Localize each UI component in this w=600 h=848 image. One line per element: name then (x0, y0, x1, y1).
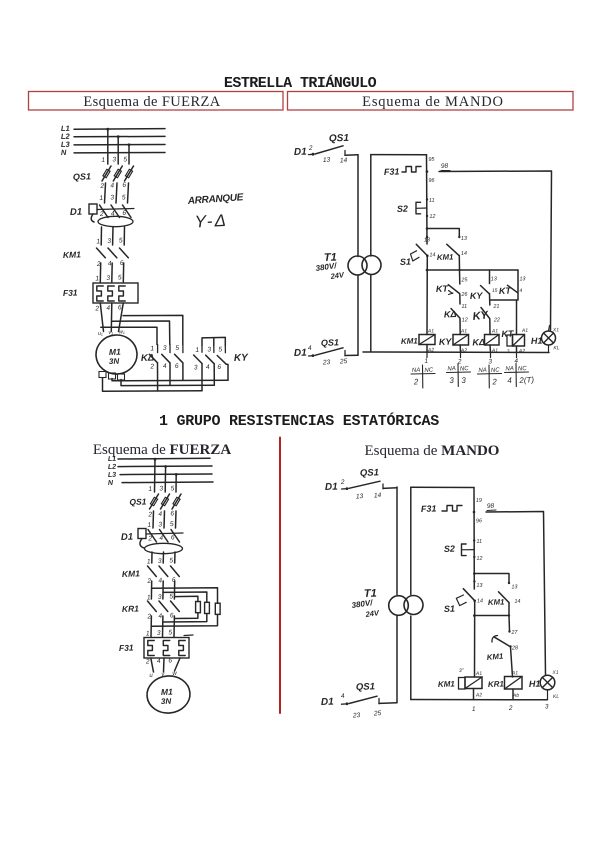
svg-text:2: 2 (413, 377, 419, 386)
svg-text:14: 14 (461, 251, 467, 257)
svg-text:19: 19 (476, 498, 482, 504)
svg-text:2: 2 (340, 479, 345, 486)
svg-text:5: 5 (119, 237, 123, 244)
svg-text:13: 13 (461, 236, 468, 242)
svg-text:1: 1 (147, 522, 151, 529)
svg-text:3N: 3N (161, 697, 172, 706)
svg-text:24V: 24V (364, 608, 380, 619)
svg-text:13: 13 (356, 493, 364, 500)
svg-text:KY: KY (470, 291, 484, 301)
svg-text:11: 11 (429, 198, 435, 204)
svg-text:3: 3 (110, 194, 114, 201)
svg-text:KY: KY (234, 352, 250, 364)
svg-text:KR1: KR1 (488, 679, 505, 689)
svg-text:13: 13 (491, 276, 498, 282)
svg-text:11: 11 (461, 304, 467, 310)
svg-text:4: 4 (106, 305, 110, 312)
svg-text:3N: 3N (109, 357, 120, 366)
svg-text:98: 98 (487, 503, 495, 510)
svg-text:D1: D1 (321, 697, 335, 708)
svg-text:1 GRUPO RESISTENCIAS ESTATÓRIC: 1 GRUPO RESISTENCIAS ESTATÓRICAS (159, 412, 439, 430)
svg-text:D1: D1 (70, 207, 83, 218)
svg-text:22: 22 (493, 317, 500, 323)
svg-text:1: 1 (424, 358, 428, 365)
svg-text:3: 3 (159, 485, 163, 492)
svg-text:28: 28 (511, 645, 519, 651)
svg-text:F31: F31 (63, 287, 78, 298)
svg-text:N: N (61, 148, 67, 157)
svg-text:5: 5 (171, 485, 175, 492)
svg-text:2: 2 (99, 183, 104, 190)
svg-text:23: 23 (352, 712, 361, 719)
svg-text:A1: A1 (521, 328, 529, 334)
svg-text:3: 3 (158, 521, 162, 528)
svg-text:3: 3 (449, 376, 454, 385)
svg-text:3: 3 (163, 345, 167, 352)
svg-text:26: 26 (460, 292, 468, 298)
svg-text:D1: D1 (325, 482, 339, 493)
svg-text:u: u (149, 673, 153, 679)
svg-text:2: 2 (94, 305, 99, 312)
svg-text:4: 4 (308, 345, 312, 352)
svg-text:24V: 24V (329, 270, 345, 281)
svg-text:Esquema de MANDO: Esquema de MANDO (365, 443, 500, 459)
svg-text:4: 4 (158, 613, 162, 620)
svg-text:F31: F31 (421, 503, 437, 514)
svg-text:13: 13 (519, 276, 526, 282)
svg-text:2: 2 (147, 535, 152, 542)
svg-text:M1: M1 (109, 347, 121, 357)
svg-text:QS1: QS1 (356, 681, 375, 693)
svg-text:14: 14 (374, 492, 382, 499)
svg-text:14: 14 (477, 598, 483, 604)
svg-text:25: 25 (460, 277, 468, 283)
svg-text:KT: KT (436, 284, 450, 294)
svg-text:14: 14 (514, 599, 520, 605)
svg-text:KΔ: KΔ (472, 337, 485, 347)
svg-text:96: 96 (428, 178, 435, 184)
svg-text:Esquema de MANDO: Esquema de MANDO (362, 94, 504, 110)
svg-text:KL: KL (553, 694, 560, 700)
svg-text:3: 3 (545, 703, 549, 710)
svg-text:NA: NA (505, 366, 514, 372)
svg-text:11: 11 (476, 539, 482, 545)
svg-text:KΔ: KΔ (444, 309, 457, 319)
svg-text:X1: X1 (552, 327, 560, 333)
svg-text:L3: L3 (108, 472, 117, 479)
svg-text:1: 1 (146, 630, 150, 637)
svg-text:25: 25 (339, 358, 348, 365)
svg-text:98: 98 (441, 163, 449, 170)
svg-text:2: 2 (99, 211, 104, 218)
svg-text:1: 1 (148, 486, 152, 493)
svg-text:KY: KY (439, 337, 453, 347)
svg-text:L1: L1 (108, 456, 117, 463)
svg-text:6: 6 (217, 364, 221, 371)
svg-text:A1: A1 (491, 328, 499, 334)
svg-text:D1: D1 (121, 532, 134, 543)
svg-text:KM1: KM1 (122, 568, 141, 579)
svg-text:4: 4 (110, 182, 114, 189)
svg-text:4: 4 (157, 658, 161, 665)
svg-text:1: 1 (195, 347, 199, 354)
svg-text:QS1: QS1 (73, 171, 91, 182)
svg-text:KM1: KM1 (486, 652, 503, 662)
svg-text:4: 4 (341, 693, 345, 700)
svg-text:1: 1 (96, 238, 100, 245)
svg-text:12: 12 (462, 317, 468, 323)
svg-text:380V/: 380V/ (351, 598, 374, 610)
svg-text:NA: NA (447, 366, 456, 372)
svg-text:23: 23 (322, 359, 331, 366)
svg-text:3: 3 (158, 594, 162, 601)
svg-text:6: 6 (175, 363, 179, 370)
svg-text:2: 2 (508, 705, 513, 712)
svg-text:QS1: QS1 (129, 496, 147, 507)
svg-text:13: 13 (476, 583, 483, 589)
svg-text:3: 3 (157, 630, 161, 637)
svg-text:5: 5 (122, 194, 126, 201)
svg-text:96: 96 (476, 518, 483, 524)
svg-text:1: 1 (150, 345, 154, 352)
svg-text:5: 5 (168, 629, 172, 636)
svg-text:Esquema de FUERZA: Esquema de FUERZA (83, 94, 220, 110)
svg-text:13: 13 (511, 584, 518, 590)
svg-text:2: 2 (491, 377, 497, 386)
svg-text:3: 3 (106, 275, 110, 282)
svg-text:Y-Δ: Y-Δ (194, 211, 228, 232)
svg-text:5: 5 (169, 593, 173, 600)
svg-text:3": 3" (459, 668, 464, 674)
svg-text:4: 4 (158, 577, 162, 584)
svg-text:13: 13 (323, 157, 331, 164)
svg-text:2: 2 (308, 145, 313, 152)
svg-text:3: 3 (112, 156, 116, 163)
svg-text:6: 6 (170, 612, 174, 619)
svg-text:1: 1 (472, 706, 476, 713)
svg-text:4: 4 (159, 535, 163, 542)
svg-text:S1: S1 (400, 257, 411, 267)
svg-text:KR1: KR1 (122, 603, 140, 614)
svg-text:1: 1 (147, 558, 151, 565)
svg-text:6: 6 (170, 510, 174, 517)
svg-text:A2: A2 (518, 348, 526, 354)
svg-text:5: 5 (169, 557, 173, 564)
svg-text:L2: L2 (108, 464, 117, 471)
svg-text:2: 2 (149, 363, 154, 370)
svg-text:1: 1 (99, 195, 103, 202)
svg-text:4: 4 (158, 511, 162, 518)
svg-text:12: 12 (476, 556, 482, 562)
svg-text:D1: D1 (294, 348, 308, 359)
svg-text:3: 3 (207, 346, 211, 353)
svg-text:4: 4 (206, 364, 210, 371)
svg-text:1: 1 (101, 157, 105, 164)
svg-text:N: N (108, 480, 114, 487)
svg-text:3: 3 (107, 238, 111, 245)
svg-text:6: 6 (122, 210, 126, 217)
svg-text:5: 5 (170, 521, 174, 528)
svg-text:A1: A1 (475, 671, 483, 677)
svg-text:21: 21 (492, 304, 499, 310)
svg-text:25: 25 (373, 710, 382, 717)
svg-text:3: 3 (488, 358, 492, 365)
svg-text:X1: X1 (551, 670, 559, 676)
svg-text:A2: A2 (475, 692, 483, 698)
svg-text:5: 5 (175, 345, 179, 352)
svg-text:12: 12 (429, 214, 435, 220)
svg-text:5: 5 (123, 156, 127, 163)
svg-text:ARRANQUE: ARRANQUE (186, 192, 244, 207)
svg-text:F31: F31 (384, 166, 400, 177)
svg-text:QS1: QS1 (360, 467, 379, 479)
svg-text:5: 5 (118, 274, 122, 281)
svg-text:S2: S2 (444, 544, 455, 554)
svg-text:4: 4 (507, 376, 512, 385)
svg-text:u₁: u₁ (98, 331, 103, 337)
svg-text:6: 6 (168, 657, 172, 664)
svg-text:NA: NA (478, 368, 487, 374)
svg-text:3: 3 (158, 558, 162, 565)
svg-text:A1: A1 (427, 328, 435, 334)
svg-text:A1: A1 (460, 328, 468, 334)
svg-text:6: 6 (171, 534, 175, 541)
svg-text:KM1: KM1 (401, 336, 419, 346)
svg-text:27: 27 (510, 630, 518, 636)
svg-text:4: 4 (163, 363, 167, 370)
svg-text:F31: F31 (119, 642, 134, 653)
svg-text:6: 6 (122, 182, 126, 189)
svg-text:1: 1 (95, 275, 99, 282)
svg-text:15: 15 (492, 288, 498, 294)
svg-text:KM1: KM1 (438, 679, 456, 689)
svg-text:2: 2 (145, 658, 150, 665)
svg-text:KL: KL (553, 345, 560, 351)
svg-text:A1: A1 (511, 670, 519, 676)
svg-text:M1: M1 (161, 687, 173, 697)
svg-text:QS1: QS1 (321, 337, 339, 348)
svg-text:2: 2 (147, 511, 152, 518)
svg-text:KM1: KM1 (437, 252, 454, 262)
svg-text:95: 95 (428, 157, 435, 163)
svg-text:S2: S2 (397, 204, 408, 214)
svg-text:2: 2 (146, 578, 151, 585)
svg-text:NA: NA (412, 368, 421, 374)
svg-text:H1: H1 (529, 679, 541, 689)
svg-text:KM1: KM1 (63, 249, 82, 260)
svg-text:5: 5 (218, 346, 222, 353)
svg-text:KM1: KM1 (488, 597, 505, 607)
svg-text:ESTRELLA TRIÁNGULO: ESTRELLA TRIÁNGULO (224, 74, 377, 92)
svg-text:QS1: QS1 (329, 133, 350, 145)
svg-text:3: 3 (461, 376, 466, 385)
svg-text:S1: S1 (444, 604, 455, 614)
svg-text:3: 3 (194, 364, 198, 371)
svg-text:2(T): 2(T) (518, 375, 534, 385)
svg-text:14: 14 (429, 252, 435, 258)
svg-text:14: 14 (340, 157, 348, 164)
svg-text:D1: D1 (294, 147, 308, 158)
svg-text:4: 4 (519, 288, 522, 294)
